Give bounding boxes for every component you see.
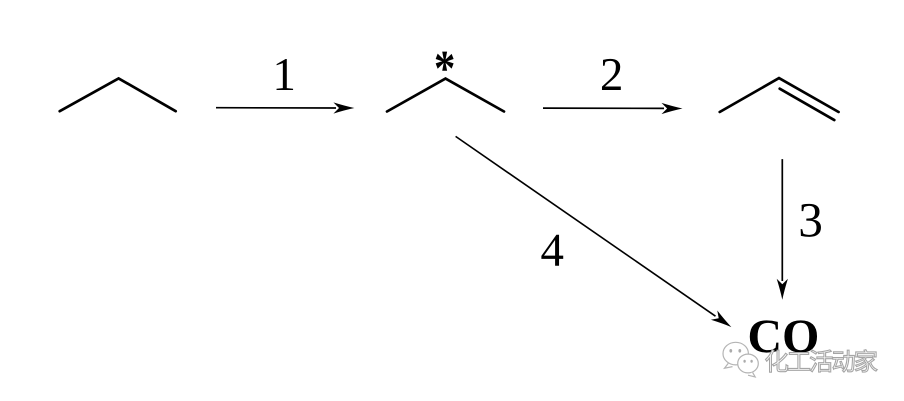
- arrow 3: propene down to CO: [777, 159, 788, 300]
- watermark text: hua gong huo dong jia: [766, 350, 878, 373]
- propane molecule: [60, 78, 176, 111]
- adsorbed propyl species: [387, 79, 504, 112]
- asterisk surface site marker: [436, 52, 454, 71]
- propene double-bond second line: [780, 89, 835, 120]
- arrow 2: propyl to propene: [543, 103, 683, 114]
- watermark icon: large chat bubble: [723, 342, 758, 377]
- arrow 1: propane to propyl: [216, 102, 354, 113]
- arrow 4: propyl diagonally to CO: [456, 136, 732, 327]
- watermark icon eyes: [729, 349, 752, 363]
- label 2: [602, 59, 621, 90]
- CO product text: [750, 320, 817, 352]
- label 4: [541, 235, 563, 266]
- label 1: [277, 59, 294, 90]
- propene molecule: [720, 78, 839, 112]
- watermark icon: small chat bubble: [738, 354, 759, 373]
- label 3: [801, 204, 821, 237]
